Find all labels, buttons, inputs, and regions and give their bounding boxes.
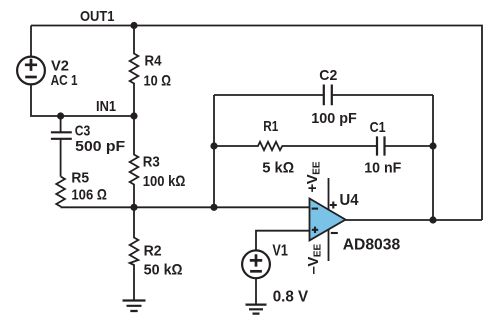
ground below V1 (246, 305, 267, 314)
voltage source V2 (17, 57, 45, 85)
svg-text:IN1: IN1 (96, 98, 116, 115)
svg-text:100 kΩ: 100 kΩ (143, 173, 186, 190)
junction node feedback left at R1 (210, 142, 217, 149)
wire OUT1 top rail and right vertical (31, 26, 482, 221)
svg-text:AD8038: AD8038 (343, 237, 401, 254)
ground below R2 (123, 301, 146, 312)
wire op-amp output to right rail (346, 219, 483, 221)
wire op-amp power rail (328, 178, 330, 261)
wire V1 to ground (255, 278, 257, 304)
op-amp U4 triangle (310, 199, 346, 241)
svg-text:R2: R2 (144, 242, 162, 259)
wire inverting node line (61, 206, 310, 208)
svg-text:500 pF: 500 pF (75, 138, 125, 155)
junction node IN1 at R4/R3 (130, 112, 137, 119)
svg-text:AC 1: AC 1 (51, 72, 78, 89)
resistor R2 (130, 207, 139, 300)
resistor R5 (56, 177, 65, 208)
capacitor C3 (51, 116, 72, 177)
svg-text:OUT1: OUT1 (80, 8, 115, 25)
svg-text:C2: C2 (319, 67, 337, 84)
svg-text:R4: R4 (145, 53, 163, 70)
junction node output at feedback (429, 216, 436, 223)
op-amp negative supply mark (331, 232, 338, 234)
resistor R1 (214, 142, 377, 150)
wire feedback right vertical (432, 95, 434, 220)
svg-text:0.8 V: 0.8 V (273, 289, 309, 306)
svg-text:C3: C3 (75, 122, 91, 139)
wire left rail from OUT1 to V2 (30, 26, 32, 57)
svg-text:50 kΩ: 50 kΩ (144, 262, 183, 279)
op-amp non-inverting input mark (312, 227, 318, 233)
svg-text:10 nF: 10 nF (364, 159, 401, 176)
svg-text:+VEE: +VEE (304, 161, 323, 192)
op-amp inverting input mark (312, 208, 319, 210)
op-amp positive supply mark (330, 202, 337, 209)
svg-text:V1: V1 (272, 242, 288, 259)
svg-text:5 kΩ: 5 kΩ (262, 159, 294, 176)
wire V2 to IN1 (31, 84, 134, 116)
wire feedback left vertical (213, 95, 215, 207)
svg-text:R5: R5 (71, 170, 89, 187)
capacitor C2 (214, 85, 433, 106)
svg-text:100 pF: 100 pF (311, 110, 357, 127)
svg-text:R1: R1 (263, 118, 278, 135)
junction node IN1 at C3 (57, 112, 64, 119)
voltage source V1 (242, 250, 270, 278)
svg-text:–VEE: –VEE (305, 243, 324, 274)
svg-text:R3: R3 (143, 154, 160, 171)
svg-text:106 Ω: 106 Ω (71, 186, 107, 203)
svg-text:10 Ω: 10 Ω (144, 72, 172, 89)
resistor R4 (130, 26, 139, 117)
resistor R3 (130, 116, 139, 207)
junction node feedback right at C1 (429, 142, 436, 149)
junction node OUT1 column (130, 22, 137, 29)
capacitor C1 (377, 136, 433, 155)
junction node inverting at R3/R2 (130, 204, 137, 211)
svg-text:C1: C1 (370, 119, 386, 136)
wire non-inverting input from V1 (256, 231, 310, 251)
junction node inverting at feedback (210, 204, 217, 211)
svg-text:U4: U4 (340, 192, 359, 209)
